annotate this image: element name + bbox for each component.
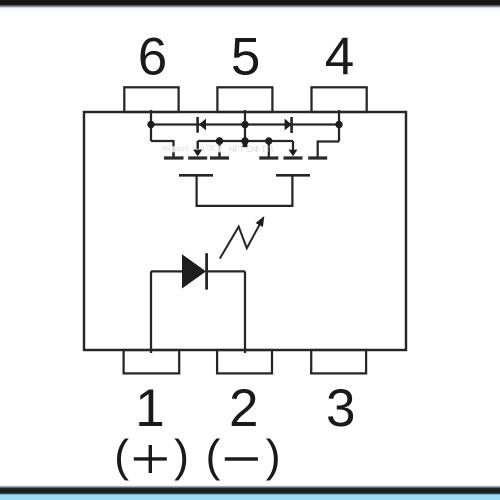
svg-text:(: ( <box>206 432 221 481</box>
svg-text:6: 6 <box>138 28 167 87</box>
svg-text:): ) <box>266 432 281 481</box>
svg-text:пн шоп тел ЗГТ: пн шоп тел ЗГТ <box>161 143 222 153</box>
svg-text:(: ( <box>114 432 129 481</box>
svg-text:2: 2 <box>229 379 258 438</box>
svg-text:1: 1 <box>135 379 164 438</box>
svg-text:4: 4 <box>325 28 354 87</box>
svg-text:3: 3 <box>326 379 355 438</box>
svg-text:): ) <box>174 432 189 481</box>
svg-text:5: 5 <box>231 28 260 87</box>
svg-text:ЧГТ ОФ ГП: ЧГТ ОФ ГП <box>229 144 273 154</box>
